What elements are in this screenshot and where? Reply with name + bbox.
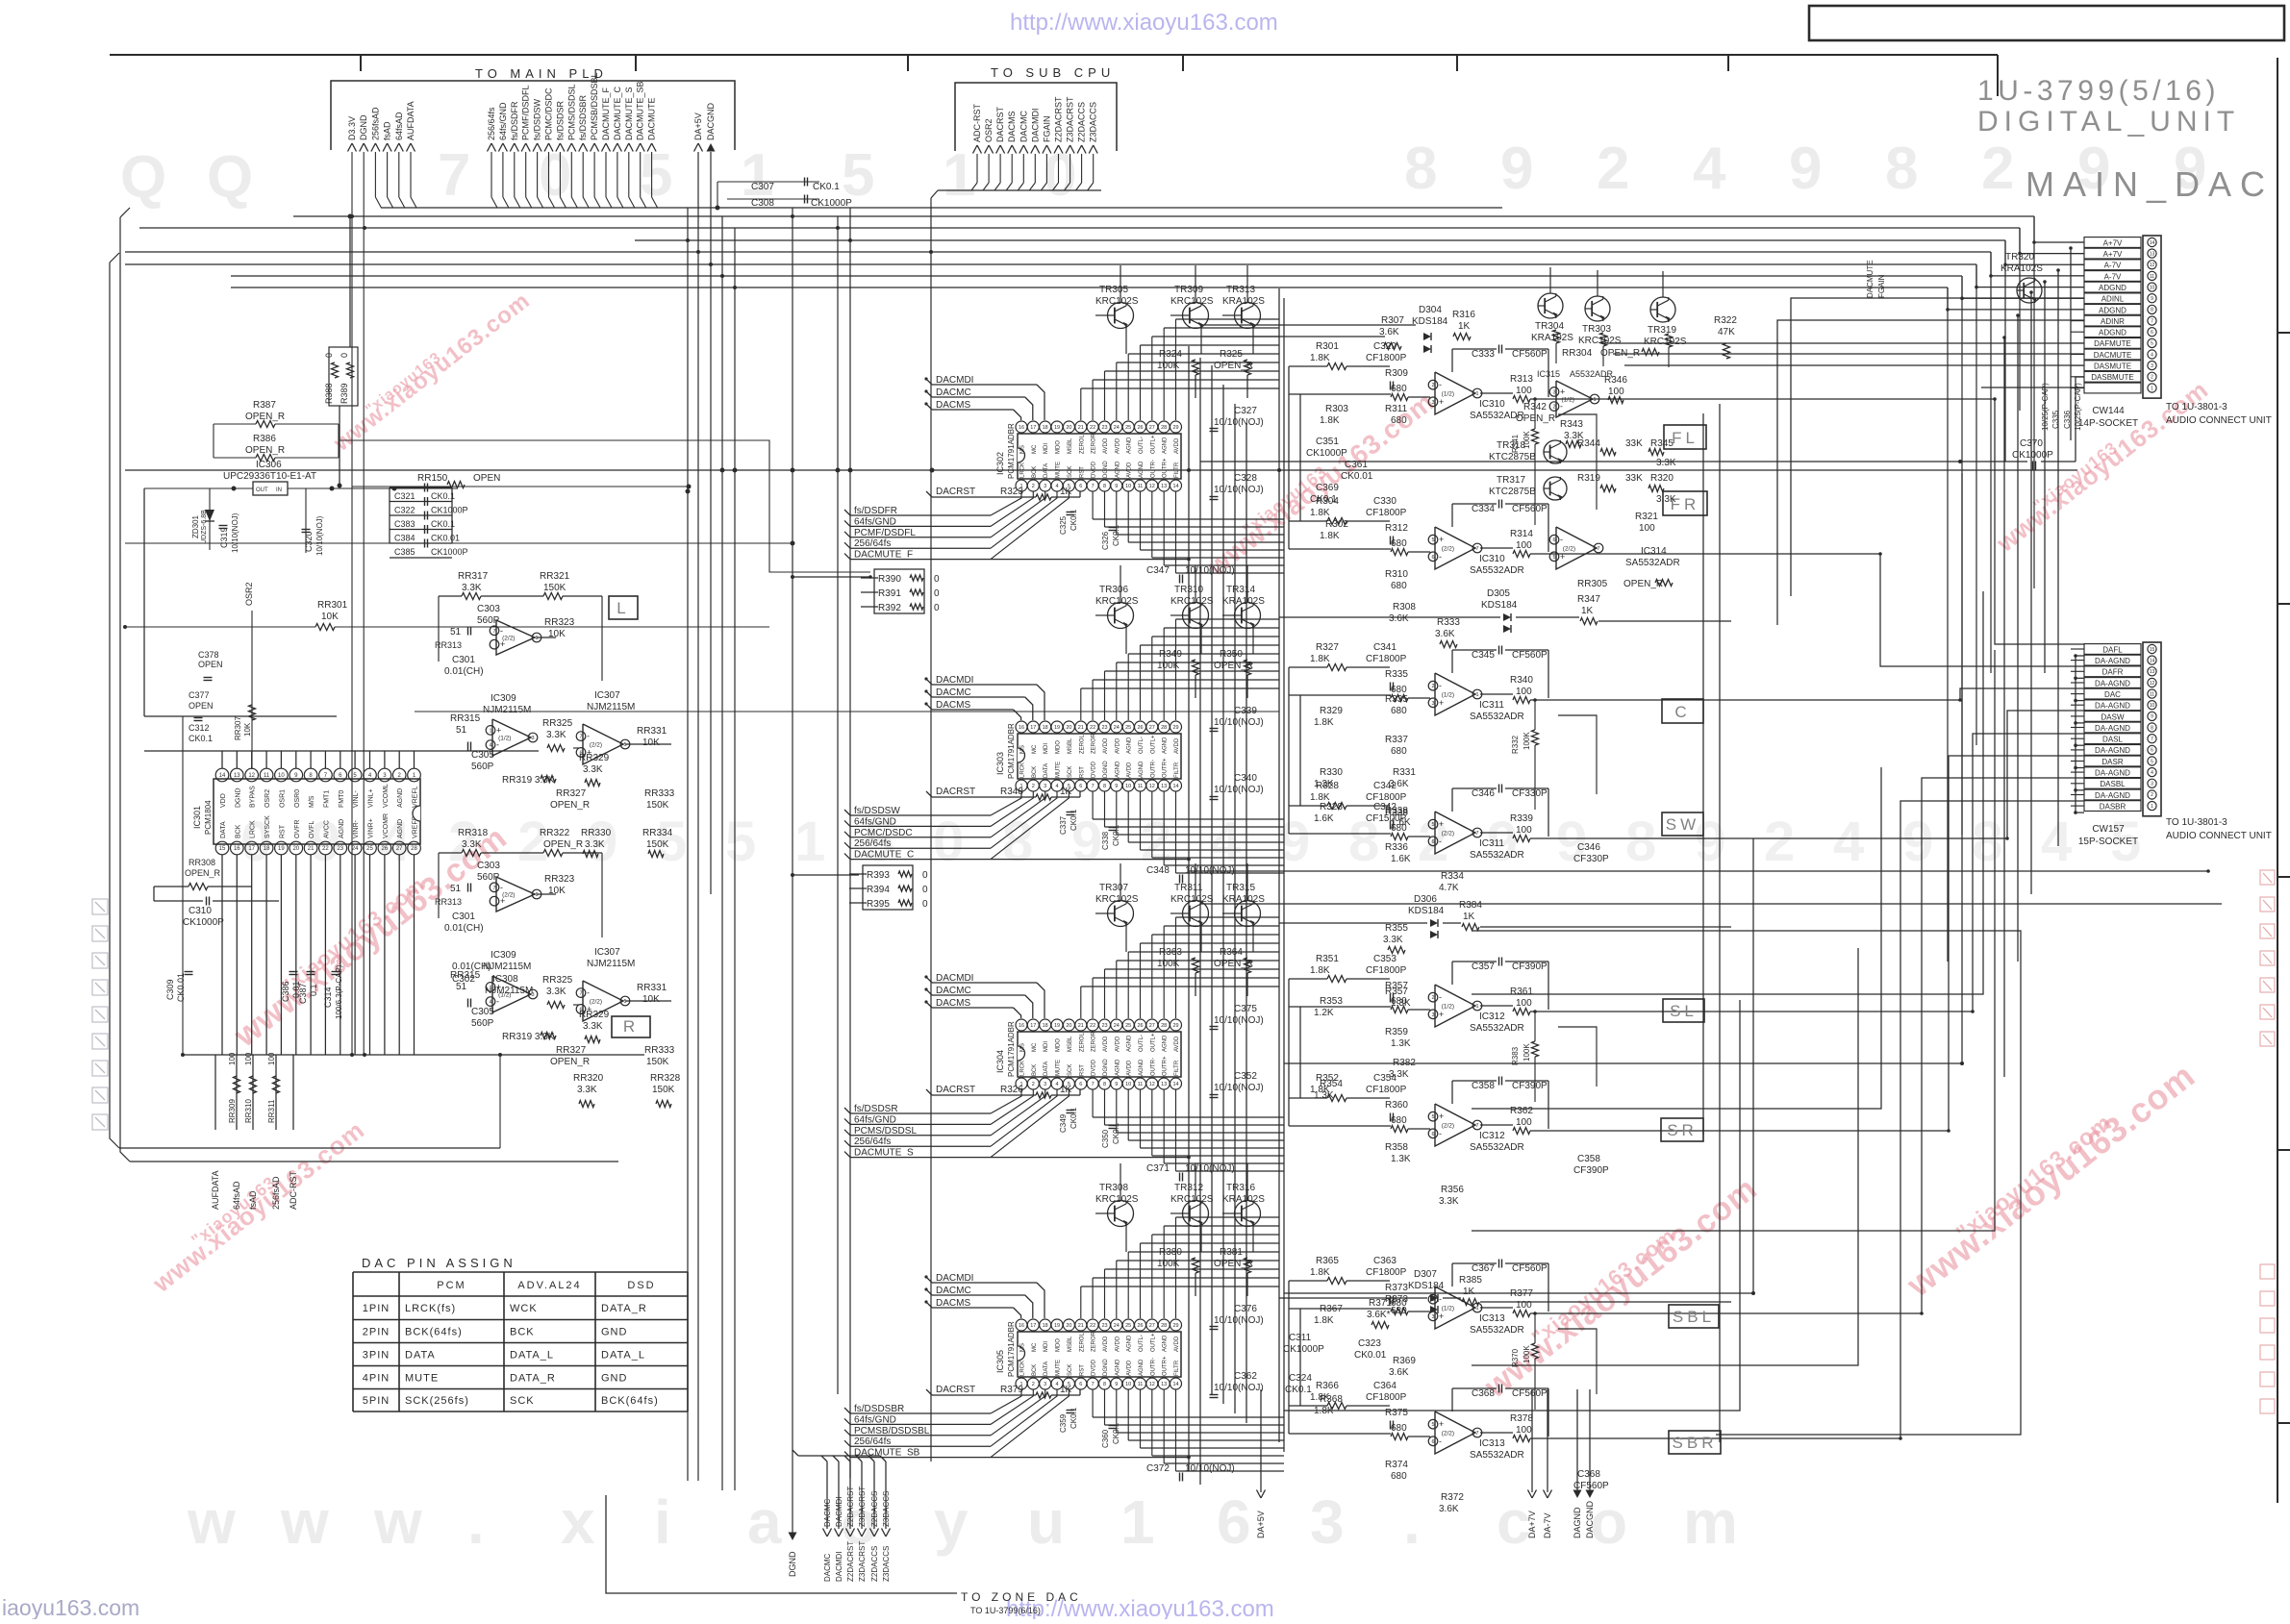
svg-text:64fs/GND: 64fs/GND	[854, 816, 896, 827]
svg-text:Z2DACRST: Z2DACRST	[846, 1541, 855, 1582]
svg-text:DA-AGND: DA-AGND	[2095, 702, 2130, 711]
svg-text:21: 21	[308, 846, 315, 852]
svg-text:WCK: WCK	[510, 1303, 538, 1314]
svg-text:MDO: MDO	[1056, 440, 1062, 454]
svg-text:+: +	[500, 639, 505, 649]
svg-text:OUTR-: OUTR-	[1150, 460, 1156, 478]
svg-text:C310: C310	[189, 906, 212, 916]
svg-text:iaoyu163.com: iaoyu163.com	[2, 1595, 139, 1619]
svg-text:KRC102S: KRC102S	[1644, 337, 1687, 347]
svg-text:AVDD: AVDD	[1127, 1060, 1133, 1076]
svg-text:RR329: RR329	[579, 1010, 610, 1020]
svg-text:24: 24	[352, 846, 359, 852]
svg-text:R334: R334	[1441, 871, 1464, 882]
svg-text:IC301: IC301	[192, 806, 202, 829]
svg-text:0: 0	[1044, 142, 1076, 209]
svg-text:OUTL-: OUTL-	[1139, 1335, 1145, 1352]
svg-text:256fsAD: 256fsAD	[271, 1176, 281, 1210]
svg-text:C346: C346	[1577, 842, 1600, 853]
svg-text:CK0.01: CK0.01	[431, 534, 460, 543]
svg-text:AGND: AGND	[1163, 1335, 1169, 1352]
svg-text:DAFMUTE: DAFMUTE	[2094, 339, 2131, 348]
svg-text:R308: R308	[1393, 602, 1416, 612]
svg-text:TO SUB CPU: TO SUB CPU	[991, 65, 1115, 80]
svg-text:100: 100	[267, 1052, 276, 1065]
svg-text:4: 4	[1055, 784, 1058, 789]
svg-text:8: 8	[1103, 1382, 1106, 1387]
svg-text:3.3K: 3.3K	[585, 839, 605, 850]
svg-text:(2/2): (2/2)	[1442, 831, 1454, 837]
svg-text:12: 12	[2150, 681, 2155, 687]
svg-text:10/10(NOJ): 10/10(NOJ)	[1214, 417, 1264, 428]
svg-text:R324: R324	[1159, 349, 1182, 360]
svg-text:R307: R307	[1381, 315, 1404, 326]
svg-text:DASBL: DASBL	[2100, 780, 2126, 788]
svg-text:3: 3	[2151, 782, 2153, 787]
svg-text:12: 12	[1149, 1382, 1155, 1387]
svg-text:23: 23	[1101, 1323, 1107, 1329]
svg-text:C362: C362	[1234, 1371, 1257, 1382]
svg-text:DACRST: DACRST	[936, 487, 975, 497]
svg-text:AVDD: AVDD	[1115, 1036, 1120, 1052]
svg-text:9: 9	[1902, 811, 1933, 873]
svg-text:R316: R316	[1452, 310, 1475, 320]
svg-text:DACMUTE_S: DACMUTE_S	[624, 87, 634, 140]
svg-text:OPEN_R: OPEN_R	[550, 800, 590, 811]
svg-text:21: 21	[1078, 425, 1084, 431]
svg-text:20: 20	[1066, 725, 1071, 731]
svg-text:25: 25	[1125, 725, 1131, 731]
svg-text:7: 7	[1475, 831, 1478, 837]
svg-text:0: 0	[922, 899, 928, 910]
svg-text:1: 1	[1475, 1004, 1478, 1010]
svg-text:VREFL: VREFL	[413, 786, 419, 808]
svg-text:DA-AGND: DA-AGND	[2095, 657, 2130, 665]
svg-text:R: R	[623, 1017, 639, 1036]
svg-text:VDD: VDD	[220, 793, 227, 808]
svg-text:CK1000P: CK1000P	[811, 198, 852, 209]
svg-text:PCMC/DSDC: PCMC/DSDC	[854, 828, 913, 838]
svg-text:R344: R344	[1577, 438, 1600, 449]
svg-text:Z2DACRST: Z2DACRST	[1053, 96, 1063, 142]
svg-text:13: 13	[234, 773, 240, 779]
svg-text:AVDD: AVDD	[1103, 737, 1109, 754]
svg-text:R365: R365	[1316, 1256, 1339, 1266]
svg-text:DGND: DGND	[1103, 761, 1109, 778]
svg-text:PCM1791ADBR: PCM1791ADBR	[1007, 423, 1016, 479]
svg-text:100: 100	[1516, 1425, 1532, 1436]
svg-text:7: 7	[1597, 546, 1599, 552]
svg-text:R309: R309	[1385, 368, 1408, 379]
svg-text:NJM2115M: NJM2115M	[483, 705, 531, 715]
svg-text:R378: R378	[1510, 1413, 1533, 1424]
svg-text:3: 3	[531, 736, 534, 741]
svg-text:PCM1791ADBR: PCM1791ADBR	[1007, 1321, 1016, 1377]
svg-text:7: 7	[2151, 318, 2153, 324]
svg-text:0: 0	[922, 885, 928, 895]
svg-text:IC310: IC310	[1479, 399, 1505, 410]
svg-text:4: 4	[1693, 136, 1726, 202]
svg-text:17: 17	[1030, 725, 1036, 731]
svg-text:R303: R303	[1325, 404, 1348, 414]
svg-text:AGND: AGND	[1115, 761, 1120, 778]
svg-text:AGND: AGND	[1115, 461, 1120, 478]
svg-text:AVDD: AVDD	[1174, 437, 1180, 454]
svg-text:DASW: DASW	[2101, 712, 2125, 721]
svg-text:R361: R361	[1510, 987, 1533, 997]
svg-text:9: 9	[1115, 1382, 1118, 1387]
svg-text:R380: R380	[1159, 1247, 1182, 1258]
svg-text:6: 6	[1079, 484, 1082, 489]
svg-text:TR303: TR303	[1582, 324, 1611, 335]
svg-text:1.3K: 1.3K	[1391, 998, 1411, 1009]
svg-text:y: y	[934, 1487, 969, 1557]
svg-text:1.2K: 1.2K	[1314, 1008, 1334, 1018]
svg-text:KRA102S: KRA102S	[1222, 596, 1265, 607]
svg-text:24: 24	[1114, 1323, 1120, 1329]
svg-text:RR318: RR318	[458, 828, 489, 838]
svg-text:17: 17	[1030, 425, 1036, 431]
svg-text:IC309: IC309	[491, 950, 516, 961]
svg-text:(1/2): (1/2)	[1562, 397, 1574, 404]
svg-text:TR318: TR318	[1497, 440, 1525, 451]
svg-text:8: 8	[1103, 1082, 1106, 1087]
svg-text:L: L	[617, 599, 629, 617]
svg-text:3PIN: 3PIN	[363, 1350, 390, 1362]
svg-text:C320: C320	[304, 531, 314, 552]
svg-text:CK1000P: CK1000P	[431, 506, 468, 515]
svg-text:100K: 100K	[1157, 959, 1180, 969]
svg-text:33K: 33K	[1625, 438, 1643, 449]
svg-text:AVDD: AVDD	[1174, 1336, 1180, 1352]
svg-text:ADC-RST: ADC-RST	[972, 103, 982, 142]
svg-text:R310: R310	[1385, 569, 1408, 580]
svg-text:560P: 560P	[471, 762, 494, 772]
svg-text:10/10(NOJ): 10/10(NOJ)	[1214, 1083, 1264, 1093]
svg-text:OUTL-: OUTL-	[1139, 1035, 1145, 1052]
svg-text:12: 12	[1149, 784, 1155, 789]
svg-text:5: 5	[640, 142, 672, 209]
svg-text:MUTE: MUTE	[1056, 762, 1062, 778]
svg-text:AGND: AGND	[1127, 1035, 1133, 1052]
svg-text:C357: C357	[1472, 962, 1495, 972]
svg-text:+: +	[1439, 1010, 1444, 1019]
svg-text:9: 9	[1500, 136, 1533, 202]
svg-text:DA+7V: DA+7V	[1527, 1511, 1537, 1538]
svg-text:MSBL: MSBL	[1068, 1036, 1073, 1052]
svg-text:AUFDATA: AUFDATA	[406, 101, 415, 140]
svg-text:1.8K: 1.8K	[1314, 717, 1334, 728]
svg-text:10K: 10K	[321, 612, 339, 622]
svg-text:R379: R379	[1000, 1385, 1023, 1395]
svg-text:C386: C386	[281, 981, 290, 1002]
svg-text:KTC2875B: KTC2875B	[1489, 452, 1536, 462]
svg-text:680: 680	[1391, 538, 1407, 549]
svg-text:C352: C352	[1234, 1071, 1257, 1082]
svg-text:R345: R345	[1650, 438, 1673, 449]
svg-text:DASR: DASR	[2101, 758, 2123, 766]
svg-text:OPEN_R: OPEN_R	[550, 1057, 590, 1067]
svg-text:RR322: RR322	[540, 828, 570, 838]
svg-text:-: -	[1439, 1129, 1442, 1138]
svg-text:C326: C326	[1101, 531, 1110, 550]
svg-text:6: 6	[1431, 839, 1434, 845]
svg-text:DGND: DGND	[1103, 461, 1109, 478]
svg-text:o: o	[1590, 1487, 1627, 1557]
svg-text:3.3K: 3.3K	[1656, 458, 1676, 468]
svg-text:Z3DACRST: Z3DACRST	[1066, 96, 1075, 142]
svg-text:CF390P: CF390P	[1573, 1165, 1609, 1176]
svg-text:OUTL+: OUTL+	[1150, 1333, 1156, 1352]
svg-text:10/10(NOJ): 10/10(NOJ)	[1214, 485, 1264, 495]
svg-text:1K: 1K	[1060, 487, 1072, 497]
svg-text:9: 9	[1115, 484, 1118, 489]
svg-text:SCK: SCK	[1068, 1064, 1073, 1076]
svg-text:RR320: RR320	[573, 1073, 604, 1084]
svg-text:17: 17	[248, 846, 255, 852]
svg-text:29: 29	[1172, 1023, 1178, 1029]
svg-text:DAC PIN ASSIGN: DAC PIN ASSIGN	[362, 1256, 516, 1270]
svg-text:-: -	[500, 883, 503, 892]
svg-text:7: 7	[1092, 1082, 1095, 1087]
svg-text:51: 51	[456, 725, 467, 736]
svg-text:AUFDATA: AUFDATA	[211, 1170, 220, 1210]
svg-text:DACMS: DACMS	[1007, 111, 1017, 142]
svg-text:18: 18	[1043, 425, 1048, 431]
svg-text:+: +	[496, 725, 501, 735]
svg-text:2: 2	[1032, 1382, 1035, 1387]
svg-text:0: 0	[324, 353, 334, 358]
svg-text:10: 10	[278, 773, 285, 779]
svg-text:CF330P: CF330P	[1512, 788, 1548, 799]
svg-text:IC312: IC312	[1479, 1131, 1505, 1141]
svg-text:SYSCK: SYSCK	[264, 815, 271, 838]
svg-text:4: 4	[1055, 484, 1058, 489]
svg-text:TR304: TR304	[1535, 321, 1564, 332]
svg-text:C358: C358	[1472, 1081, 1495, 1091]
svg-text:9: 9	[1115, 784, 1118, 789]
svg-text:R357: R357	[1385, 987, 1408, 997]
svg-text:OVFR: OVFR	[294, 819, 301, 837]
svg-text:VINR+: VINR+	[368, 818, 375, 838]
svg-text:OSR1: OSR1	[279, 789, 286, 808]
svg-text:R373: R373	[1385, 1283, 1408, 1293]
svg-text:RR317: RR317	[458, 571, 489, 582]
svg-text:CF560P: CF560P	[1512, 1388, 1548, 1399]
svg-text:13: 13	[1161, 484, 1167, 489]
svg-text:w: w	[187, 1487, 236, 1557]
svg-text:R320: R320	[1650, 473, 1673, 484]
svg-text:R387: R387	[253, 400, 276, 411]
svg-text:x: x	[561, 1487, 595, 1557]
svg-text:fs/DSDSR: fs/DSDSR	[854, 1104, 898, 1114]
svg-text:RR328: RR328	[650, 1073, 681, 1084]
svg-text:C301: C301	[452, 655, 475, 665]
svg-text:150K: 150K	[652, 1085, 675, 1095]
svg-text:10: 10	[1125, 1382, 1131, 1387]
svg-text:IC310: IC310	[1479, 554, 1505, 564]
svg-text:1: 1	[1475, 1306, 1478, 1312]
svg-text:D305: D305	[1487, 588, 1510, 599]
svg-text:OUTR-: OUTR-	[1150, 760, 1156, 778]
svg-text:(1/2): (1/2)	[498, 736, 511, 742]
svg-text:PCM: PCM	[437, 1280, 466, 1291]
svg-text:-: -	[1439, 552, 1442, 562]
svg-text:22: 22	[1090, 425, 1095, 431]
svg-text:C303: C303	[477, 604, 500, 614]
svg-text:100: 100	[1516, 825, 1532, 836]
svg-text:25: 25	[366, 846, 373, 852]
svg-text:IC303: IC303	[995, 752, 1005, 775]
svg-text:-: -	[500, 626, 503, 636]
svg-text:0.01(CH): 0.01(CH)	[444, 923, 484, 934]
svg-text:7: 7	[1475, 546, 1478, 552]
svg-text:ADC-RST: ADC-RST	[289, 1170, 298, 1210]
svg-text:3.6K: 3.6K	[1389, 613, 1409, 624]
svg-text:AGND: AGND	[1127, 737, 1133, 754]
svg-text:RR333: RR333	[644, 1045, 675, 1056]
svg-text:AVDD: AVDD	[1103, 1336, 1109, 1352]
svg-text:IC311: IC311	[1479, 838, 1504, 849]
svg-text:680: 680	[1391, 415, 1407, 426]
svg-text:RR321: RR321	[540, 571, 570, 582]
svg-text:6: 6	[1431, 555, 1434, 561]
svg-text:RST: RST	[1079, 766, 1085, 778]
svg-text:C311: C311	[1289, 1333, 1312, 1343]
svg-text:OUTL+: OUTL+	[1150, 1033, 1156, 1052]
svg-text:C378: C378	[198, 650, 219, 660]
svg-text:R369: R369	[1393, 1356, 1416, 1366]
svg-text:10K: 10K	[243, 722, 252, 737]
svg-text:R394: R394	[867, 885, 890, 895]
svg-text:1: 1	[2151, 386, 2153, 391]
svg-text:MSBL: MSBL	[1068, 737, 1073, 754]
svg-text:AGND: AGND	[1115, 1359, 1120, 1376]
svg-text:28: 28	[1161, 1323, 1167, 1329]
svg-text:1: 1	[1475, 391, 1478, 397]
svg-text:RR327: RR327	[556, 788, 587, 799]
svg-text:RR150: RR150	[417, 473, 448, 484]
svg-text:UPC29336T10-E1-AT: UPC29336T10-E1-AT	[223, 471, 316, 482]
svg-text:100K: 100K	[1522, 1043, 1531, 1062]
svg-text:OUTR+: OUTR+	[1163, 1056, 1169, 1076]
svg-text:5: 5	[725, 811, 756, 873]
svg-text:7: 7	[1092, 484, 1095, 489]
svg-text:2: 2	[1032, 784, 1035, 789]
svg-text:D307: D307	[1414, 1269, 1437, 1280]
svg-text:1.8K: 1.8K	[1314, 1315, 1334, 1326]
svg-text:TR315: TR315	[1226, 883, 1255, 893]
svg-text:13: 13	[1161, 1382, 1167, 1387]
svg-text:DATA: DATA	[1044, 763, 1049, 778]
svg-text:C351: C351	[1316, 437, 1339, 447]
svg-text:6: 6	[1552, 537, 1555, 543]
svg-text:MDI: MDI	[1044, 443, 1049, 454]
svg-text:AVCC: AVCC	[323, 820, 330, 838]
svg-text:SCK: SCK	[1068, 466, 1073, 478]
svg-text:21: 21	[1078, 1023, 1084, 1029]
svg-text:A-7V: A-7V	[2104, 272, 2122, 281]
svg-text:KRA102S: KRA102S	[1222, 894, 1265, 905]
svg-text:BCK: BCK	[235, 824, 241, 838]
svg-text:2: 2	[1597, 136, 1629, 202]
svg-text:OSR0: OSR0	[294, 789, 301, 808]
svg-text:LRCK: LRCK	[1020, 1061, 1026, 1076]
svg-text:+: +	[500, 896, 505, 906]
svg-text:R362: R362	[1510, 1106, 1533, 1116]
svg-text:3.3K: 3.3K	[577, 1085, 597, 1095]
svg-text:SW: SW	[1666, 815, 1699, 834]
svg-text:1.8K: 1.8K	[1310, 353, 1330, 363]
svg-text:15: 15	[219, 846, 226, 852]
svg-text:SA5532ADR: SA5532ADR	[1470, 1325, 1524, 1336]
svg-text:19: 19	[1054, 725, 1060, 731]
svg-text:OPEN: OPEN	[473, 473, 500, 484]
svg-text:C324: C324	[1289, 1373, 1312, 1384]
svg-text:DACMUTE_C: DACMUTE_C	[613, 86, 622, 140]
svg-text:DACMC: DACMC	[1019, 110, 1028, 141]
svg-text:IC307: IC307	[594, 690, 620, 701]
svg-text:R343: R343	[1560, 419, 1583, 430]
svg-text:22: 22	[1090, 725, 1095, 731]
svg-text:3: 3	[1552, 389, 1555, 395]
svg-text:RR330: RR330	[581, 828, 612, 838]
svg-text:ZEROL: ZEROL	[1079, 1332, 1085, 1352]
svg-text:20: 20	[292, 846, 299, 852]
svg-text:4: 4	[489, 1000, 491, 1006]
svg-text:FMT0: FMT0	[339, 790, 345, 808]
svg-text:6: 6	[2151, 330, 2153, 336]
svg-text:2: 2	[2151, 792, 2153, 798]
svg-text:-: -	[1560, 535, 1563, 544]
svg-text:KRA102S: KRA102S	[1222, 1194, 1265, 1205]
svg-text:100: 100	[244, 1052, 253, 1065]
svg-text:+: +	[1439, 397, 1444, 407]
svg-text:DACMUTE_S: DACMUTE_S	[854, 1148, 914, 1159]
svg-text:6: 6	[1079, 1382, 1082, 1387]
svg-text:9: 9	[1789, 136, 1822, 202]
svg-text:Q: Q	[207, 144, 253, 211]
svg-text:OUTL+: OUTL+	[1150, 735, 1156, 754]
svg-text:6: 6	[1431, 1439, 1434, 1445]
svg-text:2: 2	[1431, 995, 1434, 1001]
svg-text:100: 100	[1516, 998, 1532, 1009]
svg-text:DATA_R: DATA_R	[510, 1373, 556, 1385]
svg-text:14: 14	[219, 773, 226, 779]
svg-text:fsAD: fsAD	[248, 1190, 258, 1210]
svg-text:1K: 1K	[1060, 787, 1072, 797]
svg-text:20: 20	[1066, 1023, 1071, 1029]
svg-text:CK1000P: CK1000P	[1283, 1344, 1324, 1355]
svg-text:11: 11	[1138, 1082, 1144, 1087]
svg-text:1.2K: 1.2K	[1314, 779, 1334, 789]
svg-text:DGND: DGND	[788, 1551, 797, 1577]
svg-text:1.6K: 1.6K	[1391, 817, 1411, 828]
svg-text:1.6K: 1.6K	[1391, 854, 1411, 864]
svg-text:14: 14	[2150, 658, 2155, 663]
svg-text:5: 5	[1431, 537, 1434, 543]
svg-text:IC312: IC312	[1479, 1012, 1505, 1022]
svg-text:CK0.01: CK0.01	[1354, 1350, 1387, 1361]
svg-text:2: 2	[1431, 383, 1434, 388]
svg-text:4: 4	[1055, 1382, 1058, 1387]
svg-text:OPEN: OPEN	[189, 701, 214, 711]
svg-text:3.3K: 3.3K	[546, 987, 566, 997]
svg-text:TO 1U-3801-3: TO 1U-3801-3	[2166, 817, 2227, 828]
svg-text:SBR: SBR	[1673, 1434, 1718, 1452]
svg-text:MS: MS	[1020, 745, 1026, 754]
svg-text:64fs/GND: 64fs/GND	[498, 102, 508, 140]
